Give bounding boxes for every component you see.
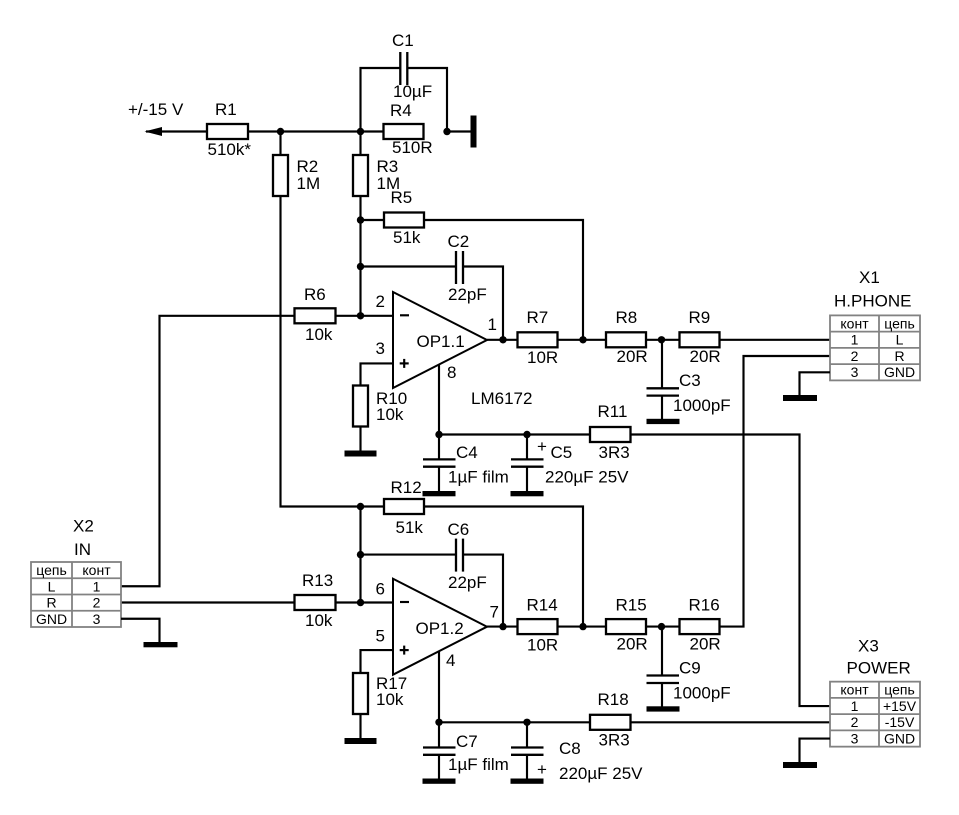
wire R input X2 pin2 to R13 (121, 601, 295, 603)
wire op-amp output (487, 339, 518, 341)
svg-text:цепь: цепь (36, 562, 67, 578)
svg-text:C2: C2 (448, 232, 470, 251)
svg-text:R14: R14 (527, 596, 558, 615)
ground (X1) (783, 395, 817, 401)
ground (C5) (511, 491, 544, 496)
svg-text:C8: C8 (559, 739, 581, 758)
junction V- node C7 (435, 719, 442, 726)
svg-text:3: 3 (851, 364, 859, 380)
svg-text:2: 2 (851, 348, 859, 364)
svg-text:OP1.2: OP1.2 (416, 619, 464, 638)
svg-text:C5: C5 (551, 443, 573, 462)
junction C9 tap (658, 623, 665, 630)
svg-text:R6: R6 (304, 285, 326, 304)
svg-text:конт: конт (82, 562, 111, 578)
resistor R10 (353, 386, 407, 427)
svg-text:C6: C6 (448, 520, 470, 539)
junction R7/R8 feedback node (579, 336, 586, 343)
svg-text:10k: 10k (376, 690, 404, 709)
ground (rail) (471, 116, 477, 148)
resistor R18 (590, 690, 631, 750)
ground (C3) (647, 419, 680, 424)
svg-text:GND: GND (36, 611, 67, 627)
svg-text:10R: 10R (527, 348, 558, 367)
junction C2 tap (357, 263, 364, 270)
svg-text:510k*: 510k* (208, 140, 252, 159)
svg-text:GND: GND (884, 730, 915, 746)
svg-text:3: 3 (376, 339, 385, 358)
wire non-inverting input to R10 (361, 363, 394, 386)
svg-text:2: 2 (93, 595, 101, 611)
resistor R8 (606, 308, 648, 366)
wire R14 to R15 (558, 626, 607, 628)
svg-text:1µF film: 1µF film (448, 468, 509, 487)
svg-text:POWER: POWER (847, 659, 911, 678)
wire R12 to R14/R15 node (423, 507, 583, 627)
svg-text:OP1.1: OP1.1 (417, 332, 465, 351)
ground (C4) (423, 491, 456, 496)
svg-text:22pF: 22pF (448, 285, 487, 304)
resistor R3 (353, 132, 400, 197)
resistor R16 (680, 596, 721, 654)
svg-text:X3: X3 (858, 637, 879, 656)
svg-text:конт: конт (840, 315, 869, 331)
ground (C7) (423, 779, 456, 784)
svg-text:4: 4 (446, 651, 455, 670)
svg-text:цепь: цепь (884, 682, 915, 698)
connector X2 table (31, 562, 121, 627)
resistor R13 (295, 571, 336, 630)
svg-text:220µF 25V: 220µF 25V (559, 764, 643, 783)
svg-text:10µF: 10µF (393, 82, 432, 101)
svg-text:510R: 510R (392, 138, 433, 157)
power rail arrow (145, 127, 208, 136)
svg-text:51k: 51k (396, 518, 424, 537)
ground (X3) (783, 762, 817, 768)
svg-text:20R: 20R (690, 635, 721, 654)
wire X1 pin3 to ground (800, 372, 831, 395)
wire R5 to R7/R8 node (423, 220, 583, 340)
svg-text:конт: конт (840, 682, 869, 698)
svg-text:7: 7 (490, 603, 499, 622)
svg-text:R12: R12 (391, 478, 422, 497)
resistor R17 (353, 673, 407, 714)
svg-text:+: + (537, 437, 547, 456)
junction output node 2 (499, 623, 506, 630)
svg-text:R5: R5 (391, 188, 413, 207)
wire R11 to X3 pin1 (+15V) (631, 435, 831, 707)
svg-text:3R3: 3R3 (599, 731, 630, 750)
resistor R5 (361, 188, 425, 247)
svg-text:GND: GND (884, 364, 915, 380)
svg-text:C9: C9 (679, 659, 701, 678)
wire R10 to ground (359, 426, 361, 451)
svg-text:C7: C7 (456, 732, 478, 751)
capacitor C5 (electrolytic) (511, 435, 629, 492)
wire V+ rail to R11 (439, 433, 591, 435)
svg-text:1000pF: 1000pF (673, 684, 731, 703)
svg-text:10k: 10k (305, 325, 333, 344)
wire R7 to R8 (558, 339, 607, 341)
wire non-inverting input 2 to R17 (361, 650, 394, 673)
capacitor C8 (electrolytic) (511, 722, 643, 783)
resistor R2 (273, 132, 320, 197)
svg-text:L: L (896, 332, 904, 348)
capacitor C1 (361, 31, 448, 132)
svg-text:2: 2 (376, 292, 385, 311)
svg-text:R: R (46, 595, 56, 611)
ground (C9) (647, 706, 680, 711)
wire R12 node down to inverting node 2 (359, 507, 361, 603)
svg-text:C3: C3 (679, 371, 701, 390)
wire pin 4 to V- node (438, 651, 440, 722)
wire R9 to X1 pin1 (720, 339, 831, 341)
svg-text:20R: 20R (617, 635, 648, 654)
resistor R11 (590, 402, 631, 462)
wire X3 pin3 to ground (800, 739, 831, 763)
svg-text:1: 1 (93, 578, 101, 594)
svg-text:1µF film: 1µF film (448, 755, 509, 774)
svg-text:1: 1 (851, 332, 859, 348)
capacitor C3 (647, 340, 731, 420)
svg-text:10k: 10k (376, 405, 404, 424)
junction C5 tap (523, 431, 530, 438)
svg-text:20R: 20R (617, 347, 648, 366)
junction C3 tap (658, 336, 665, 343)
svg-text:3: 3 (851, 730, 859, 746)
wire V- rail to R18 (439, 721, 591, 723)
junction C8 tap (523, 719, 530, 726)
junction C6 tap (357, 551, 364, 558)
svg-text:R18: R18 (598, 690, 629, 709)
wire R8 to R9 (646, 339, 680, 341)
capacitor C6 (361, 520, 504, 627)
svg-text:1000pF: 1000pF (673, 396, 731, 415)
connector X1 table (830, 315, 920, 380)
svg-text:3R3: 3R3 (599, 443, 630, 462)
svg-text:8: 8 (447, 363, 456, 382)
svg-text:R8: R8 (616, 308, 638, 327)
wire pin 8 to V+ node (438, 365, 440, 435)
svg-text:R16: R16 (689, 596, 720, 615)
svg-text:R11: R11 (598, 402, 628, 421)
capacitor C2 (361, 232, 504, 340)
op-amp OP1.2 (393, 579, 487, 675)
svg-text:X1: X1 (859, 268, 880, 287)
wire R6 to inverting input (336, 315, 394, 317)
junction inverting input node (357, 312, 364, 319)
svg-text:20R: 20R (690, 347, 721, 366)
svg-text:C4: C4 (456, 443, 478, 462)
svg-text:X2: X2 (73, 517, 94, 536)
svg-text:R13: R13 (302, 571, 333, 590)
svg-text:R15: R15 (616, 596, 647, 615)
resistor R7 (518, 308, 559, 367)
op-amp OP1.1 (393, 292, 487, 388)
svg-text:IN: IN (74, 540, 91, 559)
wire op-amp 2 output (487, 626, 518, 628)
svg-text:3: 3 (93, 611, 101, 627)
wire R13 to inverting input 2 (336, 601, 394, 603)
resistor R12 (361, 478, 425, 537)
ground (R17) (345, 738, 377, 744)
svg-text:цепь: цепь (884, 315, 915, 331)
svg-text:+15V: +15V (883, 698, 917, 714)
resistor R15 (606, 596, 648, 654)
wire R18 to X3 pin2 (-15V) (631, 721, 831, 723)
junction rail/R2 (277, 128, 284, 135)
svg-text:LM6172: LM6172 (471, 389, 532, 408)
wire R16 up to X1 pin2 (R) (720, 356, 831, 627)
wire rail R1 to R4 (248, 130, 384, 132)
junction R5 tap (357, 216, 364, 223)
svg-text:22pF: 22pF (448, 573, 487, 592)
svg-text:5: 5 (376, 627, 385, 646)
svg-text:6: 6 (376, 580, 385, 599)
svg-text:51k: 51k (393, 228, 421, 247)
junction output node (499, 336, 506, 343)
svg-text:10R: 10R (527, 636, 558, 655)
junction inverting input node 2 (357, 599, 364, 606)
svg-text:+: + (537, 760, 547, 779)
svg-text:R9: R9 (689, 308, 711, 327)
wire X2 pin3 to ground (121, 619, 160, 643)
svg-text:R1: R1 (215, 100, 237, 119)
svg-text:R: R (894, 348, 904, 364)
wire R15 to R16 (646, 626, 680, 628)
svg-text:L: L (48, 578, 56, 594)
capacitor C7 (423, 722, 509, 779)
svg-text:220µF 25V: 220µF 25V (545, 468, 629, 487)
resistor R14 (518, 596, 559, 655)
wire R4 to ground (447, 130, 471, 132)
junction R12 feedback tap (357, 503, 364, 510)
svg-text:R7: R7 (527, 308, 549, 327)
svg-text:1: 1 (851, 698, 859, 714)
wire R2 bottom to OP1.2 feedback node (281, 195, 362, 507)
resistor R9 (680, 308, 721, 366)
svg-text:H.PHONE: H.PHONE (834, 292, 911, 311)
svg-text:1: 1 (488, 315, 497, 334)
svg-text:10k: 10k (305, 611, 333, 630)
svg-text:2: 2 (851, 714, 859, 730)
wire R17 to ground (359, 714, 361, 739)
resistor R1 (207, 100, 251, 159)
ground (X2) (144, 642, 178, 647)
svg-text:+/-15 V: +/-15 V (128, 100, 184, 119)
capacitor C9 (647, 627, 731, 707)
svg-text:1M: 1M (297, 174, 321, 193)
capacitor C4 (423, 435, 509, 492)
resistor R6 (295, 285, 336, 344)
wire R3 bottom down to inverting node (359, 195, 361, 316)
resistor R4 (384, 101, 433, 157)
svg-text:C1: C1 (392, 31, 414, 50)
svg-text:R4: R4 (390, 101, 412, 120)
junction R14/R15 feedback node (579, 623, 586, 630)
ground (R10) (345, 451, 377, 457)
wire L input from X2 pin1 up to R6 (121, 316, 295, 586)
ground (C8) (511, 779, 544, 784)
junction R4/C1 right (443, 128, 450, 135)
junction rail/R3/C1 (357, 128, 364, 135)
svg-text:-15V: -15V (885, 714, 915, 730)
junction V+ node C4 (435, 431, 442, 438)
connector X3 table (830, 682, 920, 747)
